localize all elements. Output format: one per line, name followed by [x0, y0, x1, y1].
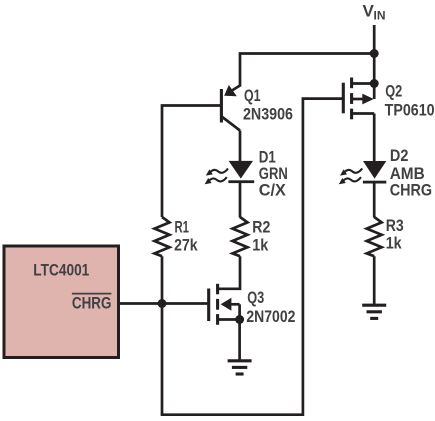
- svg-text:IN: IN: [374, 9, 386, 23]
- transistor Q1: [221, 85, 240, 131]
- svg-text:Q1: Q1: [244, 87, 261, 105]
- svg-text:GRN: GRN: [259, 165, 288, 183]
- wire R1 to CHRG junction: [161, 256, 164, 303]
- node VIN label: [363, 2, 386, 23]
- LED D2: [339, 161, 387, 184]
- IC LTC4001: [4, 246, 119, 358]
- resistor R3: [367, 217, 382, 256]
- ground (R3): [362, 305, 386, 318]
- junction Q2 source node: [370, 79, 379, 88]
- wire Q1 base to R1 top: [162, 106, 222, 218]
- wire D1 cathode to R2: [239, 183, 242, 218]
- svg-text:D2: D2: [390, 147, 409, 165]
- svg-text:TP0610: TP0610: [385, 101, 435, 119]
- svg-text:1k: 1k: [252, 237, 269, 255]
- wire Q1 collector to D1 anode: [239, 131, 242, 163]
- pin CHRG (active low): [72, 294, 112, 313]
- svg-text:CHRG: CHRG: [390, 182, 432, 200]
- wire Q3 source to ground: [238, 320, 241, 361]
- ground (Q3 source): [228, 361, 252, 374]
- wire VIN vertical: [373, 25, 376, 54]
- wire CHRG junction down to bottom rail: [161, 304, 164, 415]
- wire top rail from VIN node to Q1 emitter: [240, 54, 374, 87]
- svg-text:2N7002: 2N7002: [246, 308, 295, 326]
- junction Q3 source node: [235, 315, 244, 324]
- wire R2 to Q3 drain: [217, 256, 240, 289]
- svg-text:Q3: Q3: [247, 289, 264, 307]
- resistor R1: [155, 217, 170, 256]
- wire CHRG junction to Q3 gate: [162, 302, 208, 305]
- svg-text:27k: 27k: [174, 237, 198, 255]
- transistor Q2: [343, 78, 374, 120]
- wire CHRG pin to junction: [119, 302, 163, 305]
- junction VIN node: [370, 49, 379, 58]
- svg-text:AMB: AMB: [390, 165, 425, 183]
- junction CHRG node: [158, 299, 167, 308]
- wire Q2 drain to D2 anode: [373, 114, 376, 163]
- svg-text:R3: R3: [386, 217, 404, 235]
- svg-text:R2: R2: [252, 219, 270, 237]
- svg-text:D1: D1: [259, 148, 276, 166]
- svg-text:CHRG: CHRG: [72, 295, 112, 313]
- svg-text:1k: 1k: [386, 235, 403, 253]
- wire VIN node to Q2 source: [373, 54, 376, 84]
- transistor Q3: [209, 284, 240, 325]
- svg-text:Q2: Q2: [385, 83, 402, 101]
- wire R3 to ground: [373, 256, 376, 305]
- svg-text:R1: R1: [175, 219, 190, 237]
- wire right riser to Q2 gate: [303, 99, 343, 416]
- resistor R2: [233, 217, 248, 256]
- svg-text:2N3906: 2N3906: [243, 106, 293, 124]
- svg-text:C/X: C/X: [259, 181, 286, 199]
- wire D2 cathode to R3: [373, 183, 376, 218]
- wire bottom rail: [161, 413, 303, 416]
- svg-text:LTC4001: LTC4001: [33, 262, 89, 280]
- LED D1: [205, 161, 255, 184]
